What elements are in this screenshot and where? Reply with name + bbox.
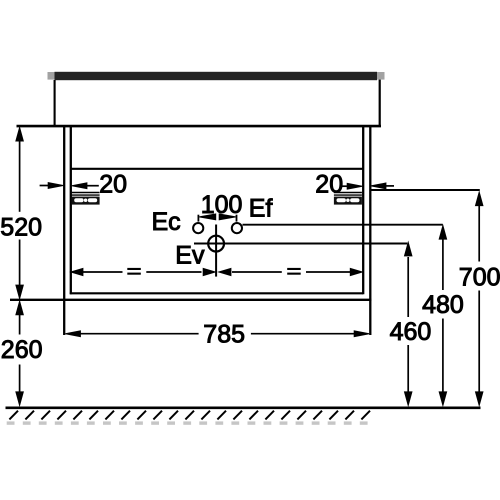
svg-text:260: 260 bbox=[1, 336, 43, 364]
svg-text:20: 20 bbox=[99, 170, 127, 198]
svg-text:Ef: Ef bbox=[249, 195, 273, 223]
svg-text:Ev: Ev bbox=[175, 241, 205, 269]
svg-text:520: 520 bbox=[0, 213, 42, 241]
svg-text:785: 785 bbox=[203, 320, 245, 348]
svg-text:Ec: Ec bbox=[152, 208, 181, 236]
svg-text:700: 700 bbox=[459, 263, 500, 291]
svg-text:460: 460 bbox=[390, 318, 432, 346]
svg-text:100: 100 bbox=[201, 191, 243, 219]
svg-text:480: 480 bbox=[422, 291, 464, 319]
svg-text:20: 20 bbox=[315, 170, 343, 198]
